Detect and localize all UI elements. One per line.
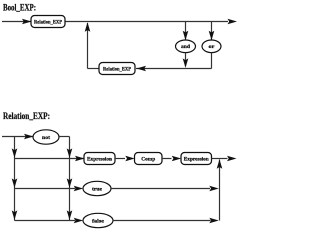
svg-text:Relation_EXP: Relation_EXP <box>103 66 132 72</box>
svg-text:true: true <box>92 186 103 192</box>
svg-text:Expression: Expression <box>184 156 209 162</box>
svg-text:or: or <box>209 45 216 50</box>
svg-text:Bool_EXP:: Bool_EXP: <box>3 3 36 13</box>
svg-text:Relation_EXP:: Relation_EXP: <box>3 111 50 121</box>
svg-text:and: and <box>181 45 190 50</box>
svg-text:not: not <box>42 135 50 141</box>
svg-text:Comp: Comp <box>141 156 155 162</box>
svg-text:false: false <box>92 218 105 224</box>
svg-text:Relation_EXP: Relation_EXP <box>34 19 63 25</box>
svg-text:Expression: Expression <box>87 156 112 162</box>
